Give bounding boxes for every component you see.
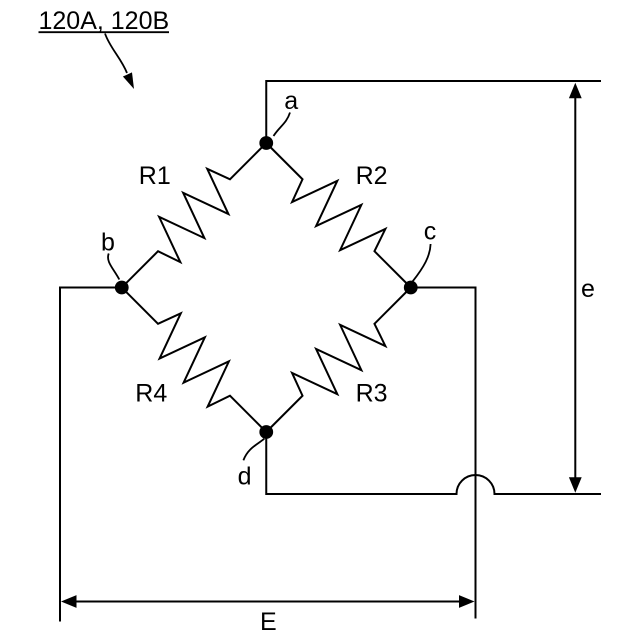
dimension line e shaft	[574, 95, 576, 480]
svg-text:e: e	[581, 275, 595, 303]
leader squiggle from c to node c	[412, 244, 430, 282]
wire from node a up and right to top-right	[266, 81, 601, 143]
svg-text:b: b	[101, 229, 115, 257]
dimension line E shaft	[74, 601, 461, 603]
svg-text:c: c	[424, 218, 437, 246]
wire from node d down and right with crossover hump	[266, 432, 601, 494]
underline under 120A, 120B	[39, 31, 170, 33]
svg-text:R3: R3	[356, 380, 388, 408]
resistor R4	[122, 288, 267, 433]
leader squiggle from d to node d	[243, 439, 264, 461]
dimension E left arrowhead	[61, 595, 77, 608]
wire from node b left and down to bottom-left	[60, 288, 122, 622]
resistor R3	[266, 288, 411, 433]
node b junction dot	[115, 281, 129, 295]
resistor R1	[122, 143, 267, 288]
svg-text:d: d	[238, 463, 252, 491]
dimension e bottom arrowhead	[569, 477, 582, 493]
resistor R2	[266, 143, 411, 288]
leader squiggle from a to node a	[274, 113, 291, 137]
svg-text:R4: R4	[135, 380, 167, 408]
svg-text:a: a	[284, 87, 298, 115]
node c junction dot	[404, 281, 418, 295]
node d junction dot	[259, 425, 273, 439]
leader squiggle from b to node b	[108, 254, 119, 280]
node a junction dot	[259, 136, 273, 150]
svg-text:120A, 120B: 120A, 120B	[39, 7, 170, 35]
dimension e top arrowhead	[569, 83, 582, 99]
svg-text:R1: R1	[139, 162, 171, 190]
dimension E right arrowhead	[459, 595, 475, 608]
wire from node c right and down	[411, 288, 476, 619]
svg-text:E: E	[260, 608, 277, 636]
leader arrow from 120A,120B label	[105, 34, 127, 74]
leader arrowhead	[123, 72, 134, 89]
svg-text:R2: R2	[356, 162, 388, 190]
